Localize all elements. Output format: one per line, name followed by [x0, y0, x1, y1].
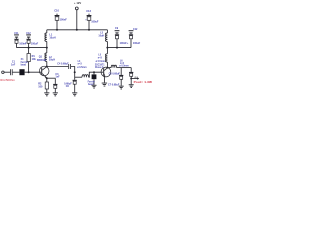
svg-text:10k: 10k: [32, 58, 37, 61]
node output arrow: [137, 77, 139, 79]
ground C5: [119, 86, 124, 90]
svg-text:C6: C6: [66, 85, 70, 88]
wire right decoupled node line: [107, 47, 131, 49]
svg-text:Pout= 1.3W: Pout= 1.3W: [134, 80, 153, 84]
wire L4 corner up to base line: [89, 72, 104, 77]
capacitor C3 electrolytic: [25, 32, 39, 48]
node junction F2: [93, 71, 95, 73]
svg-text:C11: C11: [14, 32, 19, 35]
svg-text:Rin=50Ohm: Rin=50Ohm: [0, 78, 15, 82]
ferrite bead F1: [19, 59, 28, 75]
node junction C6 tap: [74, 71, 76, 73]
svg-text:Q1: Q1: [39, 55, 43, 58]
node output junction: [130, 78, 132, 80]
wire node to L5 vertical: [106, 48, 108, 54]
svg-text:10uH: 10uH: [98, 35, 104, 38]
svg-text:+: +: [127, 42, 129, 45]
svg-text:+ 12V: + 12V: [74, 1, 81, 5]
terminal +12V: [75, 7, 78, 10]
node Q1 collector junction: [46, 66, 48, 68]
svg-text:out: out: [134, 76, 138, 79]
wire +12V rail: [47, 29, 108, 31]
wire emitter net: [47, 77, 56, 79]
svg-text:ø 0.5mm: ø 0.5mm: [96, 61, 105, 63]
node Q1 emitter junction: [46, 77, 48, 79]
capacitor C13: [85, 9, 99, 30]
svg-text:C7 0.68uF: C7 0.68uF: [108, 84, 120, 87]
ground C6: [72, 92, 77, 96]
svg-text:10uH: 10uH: [49, 37, 55, 40]
svg-text:100uF: 100uF: [133, 42, 141, 45]
wire rail right corner down to L3: [106, 30, 108, 33]
ground F2: [92, 85, 97, 89]
node junction C9: [116, 47, 118, 49]
wire L2 top: [46, 48, 48, 53]
svg-text:C12: C12: [133, 28, 138, 31]
wire output: [131, 78, 137, 80]
wire input to C1: [4, 71, 10, 73]
wire L5 to collector node: [106, 62, 108, 68]
svg-text:L5: L5: [98, 55, 101, 57]
svg-text:n=3: n=3: [120, 63, 125, 65]
wire collector node to L6: [107, 67, 111, 69]
node rail junction C10: [56, 29, 58, 31]
svg-text:bead: bead: [21, 64, 27, 66]
wire Q1 collector to C4: [47, 66, 69, 68]
ground C3: [53, 92, 58, 96]
capacitor C1: [10, 61, 16, 75]
wire lower link to L4: [75, 76, 82, 78]
transistor Q1: [37, 55, 49, 78]
capacitor C2: [14, 32, 27, 48]
svg-text:n=3: n=3: [78, 64, 83, 66]
inductor L1: [45, 33, 56, 41]
node Q2 collector junction: [106, 67, 108, 69]
svg-text:n=3: n=3: [98, 58, 103, 60]
ground above C12: [129, 30, 134, 34]
svg-text:C9: C9: [115, 27, 119, 30]
wire rail left corner down to L1: [46, 30, 48, 33]
svg-text:100: 100: [38, 86, 43, 89]
node junction L3: [106, 47, 108, 49]
inductor L6 output air coil: [111, 60, 128, 67]
capacitor C4 coupling: [57, 63, 71, 69]
svg-text:Class-C: Class-C: [95, 67, 104, 69]
ground above C2: [14, 34, 19, 38]
svg-text:10uH: 10uH: [49, 59, 55, 62]
node rail junction +12V: [76, 29, 78, 31]
svg-text:C4 0.68uF: C4 0.68uF: [57, 63, 69, 66]
wire +12V terminal to rail: [76, 10, 78, 30]
node junction L1 L2: [46, 47, 48, 49]
ground R2: [44, 92, 49, 96]
wire left decoupled node line: [17, 47, 47, 49]
capacitor C7 series output: [108, 68, 133, 87]
svg-text:100uF: 100uF: [31, 43, 39, 46]
wire C4 to corner down: [71, 67, 75, 80]
wire Q2 emitter: [103, 77, 105, 82]
capacitor C6: [64, 80, 77, 93]
terminal RF input: [2, 71, 4, 73]
transistor Q2: [95, 55, 111, 78]
svg-text:C13: C13: [86, 9, 91, 13]
resistor R2: [38, 78, 48, 92]
svg-text:BFR340: BFR340: [37, 59, 47, 62]
wire C1 to F1: [13, 71, 20, 73]
svg-text:100uF: 100uF: [91, 20, 99, 23]
svg-text:1nF: 1nF: [11, 64, 16, 67]
ferrite bead F2: [88, 72, 97, 86]
inductor L3: [98, 32, 107, 42]
wire F1 to Q1 base: [25, 71, 42, 73]
svg-text:L4: L4: [78, 60, 81, 63]
resistor R1: [27, 48, 36, 73]
wire L1 to left node line: [46, 42, 48, 48]
node junction R1 top: [28, 47, 30, 49]
inductor L2: [45, 53, 55, 62]
svg-text:1nF: 1nF: [55, 76, 60, 79]
inductor L5 vertical choke: [106, 54, 108, 62]
capacitor C10: [54, 9, 67, 30]
svg-text:C10: C10: [54, 9, 59, 13]
capacitor C9: [115, 27, 127, 47]
inductor L4 air coil: [77, 60, 88, 77]
svg-text:C12: C12: [26, 32, 31, 35]
svg-text:100nF: 100nF: [60, 18, 68, 21]
wire L6 to corner: [117, 67, 132, 69]
svg-text:Ferrite: Ferrite: [21, 61, 29, 64]
capacitor C5: [109, 68, 124, 86]
ground C7: [129, 84, 134, 88]
svg-text:ø 0.5mm: ø 0.5mm: [77, 67, 86, 69]
node junction R1 base: [28, 71, 30, 73]
node rail junction C13: [88, 29, 90, 31]
ground above C3: [26, 34, 31, 38]
capacitor C3 emitter bypass: [53, 73, 60, 92]
capacitor C12 electrolytic: [127, 28, 141, 48]
svg-text:C5 0.68uF: C5 0.68uF: [109, 72, 121, 75]
ground above C9: [115, 30, 120, 34]
ground Q2 emitter: [102, 83, 107, 87]
wire L3 to right node line: [106, 42, 108, 48]
wire L2 to collector node: [46, 62, 48, 67]
